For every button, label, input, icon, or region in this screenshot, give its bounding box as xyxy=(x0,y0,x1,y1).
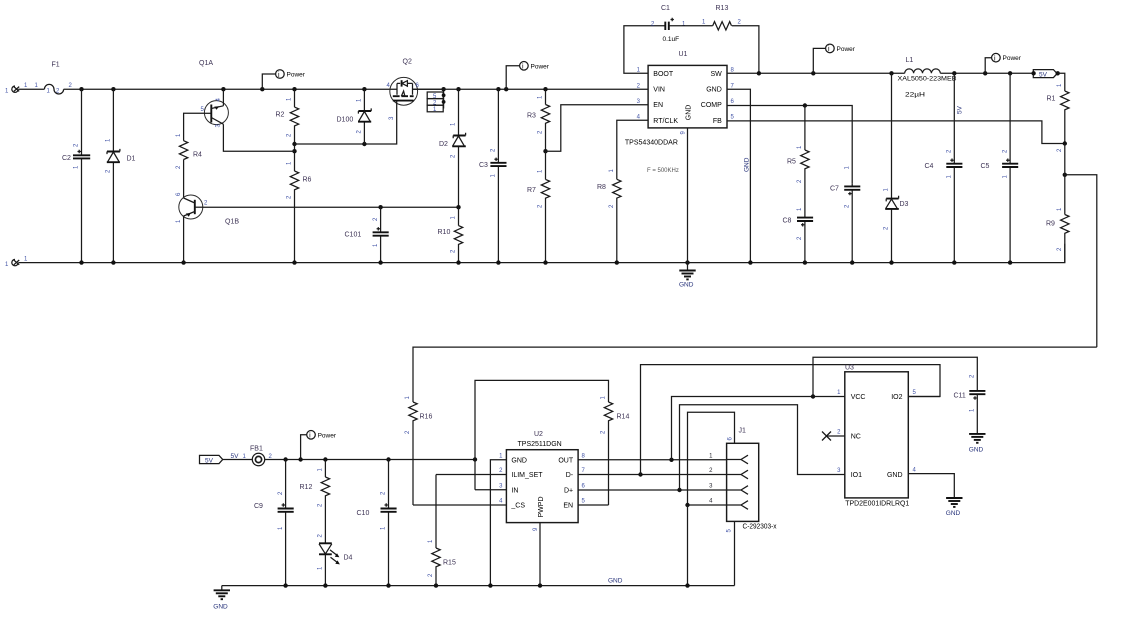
junction D- riser xyxy=(638,472,642,476)
wire C1 to R13 xyxy=(669,25,713,27)
svg-text:Power: Power xyxy=(1003,55,1022,62)
wire 5V to R1 xyxy=(1058,73,1065,91)
svg-text:0.1uF: 0.1uF xyxy=(663,36,680,43)
wire R13 to SW rail xyxy=(732,26,759,74)
svg-text:C3: C3 xyxy=(479,162,488,169)
wire IO2 row from box xyxy=(908,396,940,398)
wire D- riser to IO2 xyxy=(641,365,941,475)
svg-text:BOOT: BOOT xyxy=(653,71,674,78)
junction VCC / C11 xyxy=(811,394,815,398)
wire input to fuse xyxy=(19,88,45,90)
svg-text:F1: F1 xyxy=(52,62,60,69)
svg-text:R8: R8 xyxy=(597,184,606,191)
svg-text:C4: C4 xyxy=(925,163,934,170)
svg-text:TPS54340DDAR: TPS54340DDAR xyxy=(625,140,678,147)
svg-text:R10: R10 xyxy=(438,229,451,236)
resistor R14 xyxy=(601,396,630,506)
junction R3 bottom / EN xyxy=(543,149,547,153)
svg-text:_CS: _CS xyxy=(510,503,525,510)
resistor R8 xyxy=(597,169,621,263)
wire ILIM row xyxy=(436,474,506,476)
svg-text:Q1A: Q1A xyxy=(199,60,213,67)
junction C10 bottom xyxy=(386,583,390,587)
wire RT/CLK to R8 xyxy=(617,120,648,179)
svg-text:R14: R14 xyxy=(617,414,630,421)
svg-text:FB: FB xyxy=(713,118,722,125)
wire U1 GND pin7 to ground xyxy=(727,89,750,262)
junction R6 bottom xyxy=(292,260,296,264)
junction J1 pin4 ground xyxy=(685,583,689,587)
wire J1 pin4 row xyxy=(688,504,727,506)
svg-text:R6: R6 xyxy=(303,177,312,184)
wire J1 shield bracket xyxy=(688,412,735,505)
wire OUT row xyxy=(578,459,727,461)
junction sense tap xyxy=(1063,173,1067,177)
svg-text:U2: U2 xyxy=(534,431,543,438)
ground symbol GND (U3) xyxy=(946,498,963,517)
junction R2 bottom / gate row xyxy=(292,142,296,146)
svg-text:D2: D2 xyxy=(439,141,448,148)
svg-text:GND: GND xyxy=(706,87,722,94)
resistor R13 xyxy=(702,5,742,30)
resistor R2 with column xyxy=(276,89,299,171)
wire Q1B emitter to ground rail xyxy=(183,216,185,262)
svg-text:GND: GND xyxy=(946,510,961,517)
wire J1 pin4 drop to ground xyxy=(687,505,689,586)
capacitor C9 xyxy=(254,460,294,586)
capacitor C10 xyxy=(357,460,397,586)
power flag Power2 xyxy=(506,62,550,90)
junction C7 bottom xyxy=(850,260,854,264)
junction D1 bottom xyxy=(111,260,115,264)
op-amp U1 TPS54340DDAR box xyxy=(625,51,735,174)
transistor Q1A (PNP, base left) xyxy=(199,60,228,137)
wire U3 GND pin4 xyxy=(908,474,954,498)
svg-text:R2: R2 xyxy=(276,112,285,119)
svg-text:IO2: IO2 xyxy=(891,394,902,401)
capacitor C8 xyxy=(783,207,814,263)
svg-text:R9: R9 xyxy=(1046,221,1055,228)
svg-text:D100: D100 xyxy=(337,117,354,124)
junction C101 bottom xyxy=(378,260,382,264)
svg-text:R1: R1 xyxy=(1047,96,1056,103)
junction D100 top xyxy=(362,87,366,91)
svg-text:GND: GND xyxy=(213,604,228,611)
inductor L1 XAL5050-223MEB 22uH xyxy=(898,57,957,99)
svg-text:C11: C11 xyxy=(954,393,966,400)
resistor R5 xyxy=(787,106,809,215)
svg-text:D1: D1 xyxy=(127,156,136,163)
svg-text:R16: R16 xyxy=(420,414,433,421)
wire lower 5V rail xyxy=(265,459,475,461)
resistor R16 xyxy=(405,396,432,506)
capacitor C1 0.1uF xyxy=(651,5,686,43)
junction IN riser xyxy=(473,457,477,461)
wire gate row to Q2 gate xyxy=(295,105,397,145)
ferrite bead FB1 xyxy=(250,446,273,466)
junction C10 top xyxy=(386,457,390,461)
power flag Power3 xyxy=(813,44,855,73)
wire 5V into FB1 xyxy=(223,459,253,461)
junction R12 top xyxy=(323,457,327,461)
svg-text:Q2: Q2 xyxy=(403,59,412,66)
svg-text:R5: R5 xyxy=(787,159,796,166)
svg-text:Power: Power xyxy=(287,72,306,79)
junction C5 bottom xyxy=(1008,260,1012,264)
power flag Power5 xyxy=(301,431,337,460)
svg-text:GND: GND xyxy=(679,282,694,289)
wire C11 bracket xyxy=(813,357,977,396)
wire EN route xyxy=(546,105,649,152)
junction C101 top xyxy=(378,205,382,209)
wire divider to lower section xyxy=(1065,175,1097,347)
junction C8 bottom xyxy=(803,260,807,264)
svg-text:VIN: VIN xyxy=(653,87,665,94)
junction PWPD bottom xyxy=(538,583,542,587)
svg-text:GND: GND xyxy=(887,472,903,479)
junction R5 top xyxy=(803,103,807,107)
junction VCC riser xyxy=(669,458,673,462)
junction R13 on SW xyxy=(757,71,761,75)
svg-text:L1: L1 xyxy=(906,57,914,64)
svg-text:C7: C7 xyxy=(830,186,839,193)
svg-text:GND: GND xyxy=(608,578,623,585)
svg-text:D3: D3 xyxy=(900,201,909,208)
junction D3 bottom xyxy=(889,260,893,264)
svg-text:Power: Power xyxy=(531,63,550,70)
junction C4 bottom xyxy=(952,260,956,264)
svg-text:R12: R12 xyxy=(300,484,313,491)
junction C5 top xyxy=(1008,71,1012,75)
capacitor C2 xyxy=(62,89,90,262)
junction D4 bottom xyxy=(323,583,327,587)
junction U1 pin7 ground xyxy=(748,260,752,264)
wire EN row xyxy=(578,504,608,506)
junction C2 bottom xyxy=(79,260,83,264)
svg-text:Q1B: Q1B xyxy=(225,219,239,226)
resistor R7 xyxy=(527,151,550,262)
resistor R10 xyxy=(438,207,463,262)
wire IN riser bracket xyxy=(475,380,609,489)
svg-text:GND: GND xyxy=(744,157,751,172)
junction power flag 5 xyxy=(298,457,302,461)
svg-text:VCC: VCC xyxy=(851,394,866,401)
junction C4 top xyxy=(952,71,956,75)
junction R7 bottom xyxy=(543,260,547,264)
ground symbol GND (lower left) xyxy=(213,586,230,611)
junction R8 bottom xyxy=(615,260,619,264)
svg-text:Power: Power xyxy=(318,432,337,439)
svg-text:U3: U3 xyxy=(845,365,854,372)
wire sense line (long horizontal) xyxy=(413,347,1097,402)
wire VCC riser and row xyxy=(672,397,845,460)
wire top-section ground rail xyxy=(19,244,1065,263)
wire SW rail xyxy=(727,72,905,74)
svg-text:D4: D4 xyxy=(344,555,353,562)
op-amp U3 TPD2E001IDRLRQ1 box xyxy=(837,365,916,508)
wire 5V output rail xyxy=(940,72,1033,74)
wire Q1B collector row xyxy=(203,206,459,208)
wire _CS row xyxy=(413,504,506,506)
wire R4 to Q1B xyxy=(183,160,185,198)
junction D100 bottom xyxy=(362,142,366,146)
junction D2 bottom / R10 top xyxy=(456,205,460,209)
junction D3 top xyxy=(889,71,893,75)
svg-text:J1: J1 xyxy=(739,428,747,435)
junction C3 top xyxy=(496,87,500,91)
svg-text:NC: NC xyxy=(851,434,861,441)
junction D+ riser xyxy=(677,488,681,492)
input terminal P1 pin1 (top left) xyxy=(5,86,19,95)
svg-text:EN: EN xyxy=(653,102,663,109)
svg-text:EN: EN xyxy=(563,503,573,510)
ground symbol GND (C11) xyxy=(969,434,986,454)
junction collector row xyxy=(292,149,296,153)
junction power flag 3 xyxy=(811,71,815,75)
svg-text:5V: 5V xyxy=(957,105,964,114)
wire FB row xyxy=(727,121,1065,144)
wire VIN rail right of Q2 xyxy=(413,88,649,90)
junction C9 top xyxy=(283,457,287,461)
svg-text:IO1: IO1 xyxy=(851,472,862,479)
svg-text:C8: C8 xyxy=(783,218,792,225)
svg-text:D+: D+ xyxy=(564,488,573,495)
resistor R6 xyxy=(287,161,312,263)
junction R2 top xyxy=(292,87,296,91)
net label 5V (top pentagon) xyxy=(1031,70,1060,79)
capacitor C11 xyxy=(954,374,986,434)
svg-text:IN: IN xyxy=(511,488,518,495)
svg-text:TPD2E001IDRLRQ1: TPD2E001IDRLRQ1 xyxy=(845,501,909,508)
svg-text:RT/CLK: RT/CLK xyxy=(653,118,678,125)
net label 5V (bottom pentagon) xyxy=(200,455,223,464)
Q2 paralleled pin box (pins 5,2,1) xyxy=(427,89,445,113)
svg-text:ILIM_SET: ILIM_SET xyxy=(511,472,543,479)
junction D1 top xyxy=(111,87,115,91)
svg-text:R13: R13 xyxy=(716,5,729,12)
zener diode D100 xyxy=(337,89,372,144)
fuse F1 xyxy=(44,62,63,95)
svg-text:D-: D- xyxy=(566,472,574,479)
svg-text:C1: C1 xyxy=(661,5,670,12)
junction Q1B emitter bottom xyxy=(181,260,185,264)
svg-text:R3: R3 xyxy=(527,113,536,120)
wire J1 pin5 to ground rail xyxy=(734,521,736,585)
junction power flag 1 xyxy=(260,87,264,91)
capacitor C7 xyxy=(830,166,860,263)
capacitor C101 xyxy=(345,207,389,262)
svg-text:GND: GND xyxy=(969,447,984,454)
wire fuse to VIN rail xyxy=(64,88,391,90)
input terminal P1 pin2 (bottom left) xyxy=(5,257,28,268)
junction R15 bottom xyxy=(434,583,438,587)
wire Q1A collector row xyxy=(223,137,294,152)
svg-text:C9: C9 xyxy=(254,503,263,510)
junction C2 top xyxy=(79,87,83,91)
svg-text:GND: GND xyxy=(685,105,692,121)
wire COMP row xyxy=(727,106,852,184)
wire D+ riser to IO1 xyxy=(680,405,845,490)
svg-text:R15: R15 xyxy=(443,560,456,567)
svg-text:Power: Power xyxy=(837,46,856,53)
junction C9 bottom xyxy=(283,583,287,587)
wire U1 pin9 to ground rail xyxy=(687,128,689,271)
power flag Power4 xyxy=(985,53,1022,73)
capacitor C3 xyxy=(479,89,507,262)
no-connect X on U3 pin2 xyxy=(822,432,845,441)
zener diode D2 xyxy=(439,89,466,207)
transistor Q1B (PNP, rotated, bar right) xyxy=(176,192,239,226)
svg-text:TPS2511DGN: TPS2511DGN xyxy=(518,441,562,448)
svg-text:XAL5050-223MEB: XAL5050-223MEB xyxy=(898,76,957,83)
svg-text:FB1: FB1 xyxy=(250,446,263,453)
resistor R4 xyxy=(176,133,202,169)
svg-text:C2: C2 xyxy=(62,155,71,162)
zener diode D1 xyxy=(106,89,136,262)
junction U1 pin9 ground xyxy=(685,260,689,264)
MOSFET Q2 (P-channel with body diode) xyxy=(387,59,444,121)
op-amp U2 TPS2511DGN box xyxy=(499,431,585,531)
junction C3 bottom xyxy=(496,260,500,264)
capacitor C5 xyxy=(981,73,1019,262)
wire Q1A base to R4 xyxy=(184,113,205,140)
wire D- row xyxy=(578,474,727,476)
wire U2 PWPD pin9 drop xyxy=(539,523,541,586)
resistor R12 xyxy=(300,460,330,544)
resistor R1 xyxy=(1047,83,1070,152)
svg-text:5V: 5V xyxy=(1039,71,1048,78)
LED D4 xyxy=(318,534,353,586)
svg-text:R4: R4 xyxy=(193,152,202,159)
svg-text:OUT: OUT xyxy=(558,457,574,464)
junction Q2 pin box on rail xyxy=(441,87,445,91)
svg-text:C101: C101 xyxy=(345,232,362,239)
junction Q1A emitter xyxy=(221,87,225,91)
power flag Power1 xyxy=(262,70,305,90)
svg-text:C10: C10 xyxy=(357,510,370,517)
svg-text:SW: SW xyxy=(711,71,723,78)
junction D2 top xyxy=(456,87,460,91)
ground symbol GND (top section) xyxy=(679,271,696,289)
svg-text:5V: 5V xyxy=(205,457,214,464)
junction power flag 4 xyxy=(983,71,987,75)
svg-text:22µH: 22µH xyxy=(905,92,925,99)
resistor R9 xyxy=(1046,144,1069,263)
junction FB divider xyxy=(1063,141,1067,145)
junction power flag 2 xyxy=(504,87,508,91)
wire U2 GND pin1 drop xyxy=(490,460,506,586)
wire lower ground rail xyxy=(222,585,735,587)
connector J1 C-292303-x xyxy=(709,428,777,533)
junction R10 bottom xyxy=(456,260,460,264)
svg-text:C5: C5 xyxy=(981,163,990,170)
wire D+ row xyxy=(578,489,727,491)
resistor R15 xyxy=(428,475,456,586)
wire IN row xyxy=(475,489,506,491)
junction U2 GND bottom xyxy=(488,583,492,587)
svg-text:U1: U1 xyxy=(679,51,688,58)
svg-text:R7: R7 xyxy=(527,187,536,194)
capacitor C4 xyxy=(925,73,963,262)
wire BOOT loop xyxy=(624,26,665,74)
svg-text:PWPD: PWPD xyxy=(538,497,545,518)
junction J1 pin4 xyxy=(685,503,689,507)
svg-text:COMP: COMP xyxy=(701,102,722,109)
junction R3 top xyxy=(543,87,547,91)
resistor R3 xyxy=(527,89,550,151)
zener diode D3 xyxy=(884,73,909,262)
svg-text:GND: GND xyxy=(511,457,527,464)
svg-text:F = 500KHz: F = 500KHz xyxy=(647,168,679,174)
svg-text:C-292303-x: C-292303-x xyxy=(743,524,777,531)
